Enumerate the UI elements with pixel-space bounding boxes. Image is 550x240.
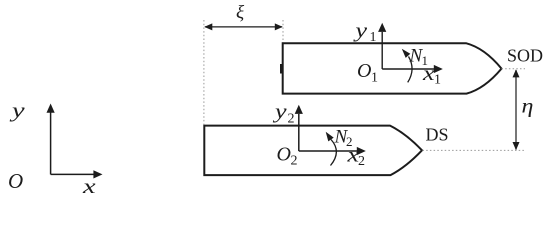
label N1 <box>409 46 429 69</box>
svg-text:2: 2 <box>291 154 298 169</box>
svg-text:O: O <box>357 60 371 82</box>
moment arrow N2 (arc) <box>326 132 337 166</box>
svg-text:SOD: SOD <box>507 46 543 66</box>
label O1 <box>357 60 378 86</box>
dotted extension line left (stern of DS) <box>203 20 205 125</box>
ship hull SOD (upper) <box>283 43 502 93</box>
global y-axis <box>47 104 55 175</box>
dimension arrow xi <box>204 23 283 30</box>
svg-text:y: y <box>273 101 288 123</box>
svg-text:O: O <box>8 169 23 193</box>
label x2 <box>346 144 365 169</box>
svg-text:ξ: ξ <box>236 3 245 24</box>
svg-text:2: 2 <box>288 111 295 126</box>
dotted extension line right (stern of SOD) <box>282 20 284 43</box>
svg-text:y: y <box>9 99 26 122</box>
svg-text:1: 1 <box>434 73 441 88</box>
label N2 <box>334 127 353 150</box>
moment arrow N1 (arc) <box>402 49 412 83</box>
label y1 <box>353 20 376 45</box>
dotted line from DS bow tip <box>423 149 526 151</box>
label x1 <box>422 63 441 88</box>
x2-axis of DS <box>299 147 366 155</box>
x1-axis of SOD <box>382 65 443 73</box>
svg-text:1: 1 <box>422 53 429 68</box>
svg-text:O: O <box>277 144 291 166</box>
svg-text:2: 2 <box>358 154 365 169</box>
svg-text:DS: DS <box>426 125 449 145</box>
svg-text:η: η <box>522 94 534 117</box>
label O2 <box>277 144 298 169</box>
y1-axis of SOD <box>378 23 386 69</box>
label y2 <box>273 101 295 127</box>
dimension arrow eta <box>513 69 520 150</box>
y2-axis of DS <box>295 105 303 151</box>
svg-text:1: 1 <box>370 30 377 45</box>
svg-text:1: 1 <box>371 71 378 86</box>
ship hull DS (lower) <box>204 126 422 176</box>
dotted line from SOD bow tip <box>502 68 526 70</box>
stern tick mark on SOD <box>280 64 283 74</box>
svg-text:y: y <box>353 20 368 42</box>
svg-text:x: x <box>82 175 96 198</box>
svg-text:2: 2 <box>346 134 353 149</box>
global x-axis <box>51 170 103 178</box>
